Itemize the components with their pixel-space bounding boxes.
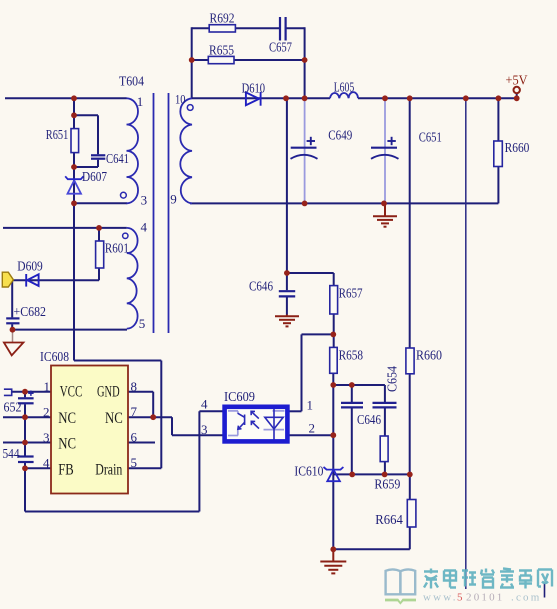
svg-text:IC609: IC609 [224, 389, 255, 404]
svg-text:.com: .com [511, 592, 542, 604]
svg-text:NC: NC [58, 410, 76, 427]
svg-text:D610: D610 [242, 81, 266, 96]
svg-text:8: 8 [131, 379, 138, 394]
svg-text:2: 2 [43, 405, 50, 420]
svg-text:R601: R601 [105, 241, 129, 256]
svg-text:C646: C646 [357, 412, 381, 427]
svg-text:C641: C641 [106, 151, 129, 166]
svg-text:R655: R655 [209, 42, 234, 57]
svg-text:GND: GND [97, 384, 120, 401]
svg-text:2: 2 [309, 421, 316, 436]
svg-text:D607: D607 [82, 169, 107, 184]
svg-text:5: 5 [457, 592, 465, 604]
svg-text:R657: R657 [339, 286, 363, 301]
svg-text:4: 4 [201, 397, 208, 412]
svg-text:544: 544 [3, 446, 20, 461]
svg-text:4: 4 [141, 220, 148, 235]
svg-text:C657: C657 [269, 40, 292, 55]
svg-text:4: 4 [43, 456, 50, 471]
svg-text:IC610: IC610 [294, 464, 323, 479]
svg-text:R692: R692 [210, 11, 235, 26]
svg-text:3: 3 [201, 422, 208, 437]
svg-text:NC: NC [58, 436, 76, 453]
svg-text:R660: R660 [416, 348, 442, 363]
svg-text:6: 6 [131, 430, 138, 445]
svg-text:R659: R659 [374, 477, 400, 492]
svg-text:C646: C646 [249, 279, 273, 294]
svg-text:IC608: IC608 [40, 349, 69, 364]
svg-text:C654: C654 [385, 366, 400, 392]
svg-text:652: 652 [4, 400, 22, 415]
svg-text:Drain: Drain [95, 461, 122, 478]
svg-text:VCC: VCC [60, 384, 83, 401]
svg-text:3: 3 [141, 193, 148, 208]
svg-text:L605: L605 [334, 79, 355, 94]
svg-text:10: 10 [175, 91, 186, 106]
svg-text:+C682: +C682 [14, 304, 47, 319]
svg-text:1: 1 [44, 379, 51, 394]
svg-text:www.: www. [423, 592, 458, 604]
svg-text:C651: C651 [419, 129, 442, 144]
svg-text:1: 1 [307, 398, 314, 413]
svg-text:5: 5 [139, 316, 146, 331]
svg-text:1: 1 [137, 94, 144, 109]
svg-text:5: 5 [131, 455, 138, 470]
svg-text:FB: FB [58, 461, 74, 478]
svg-text:R660: R660 [505, 140, 530, 155]
svg-text:7: 7 [131, 404, 138, 419]
svg-text:C649: C649 [328, 128, 352, 143]
svg-text:+5V: +5V [506, 73, 528, 88]
svg-text:T604: T604 [119, 74, 144, 89]
svg-text:R664: R664 [375, 512, 403, 527]
svg-text:R651: R651 [46, 127, 69, 142]
svg-text:20101: 20101 [466, 592, 505, 604]
svg-text:R658: R658 [339, 348, 364, 363]
svg-text:NC: NC [105, 410, 123, 427]
svg-text:9: 9 [170, 191, 177, 206]
svg-text:D609: D609 [17, 259, 43, 274]
svg-text:3: 3 [43, 430, 50, 445]
